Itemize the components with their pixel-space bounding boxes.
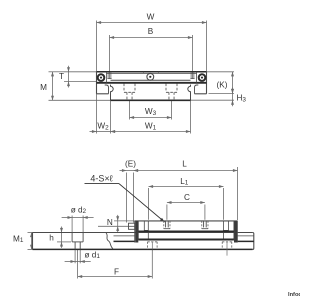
svg-text:B: B bbox=[148, 27, 154, 36]
svg-text:F: F bbox=[114, 267, 119, 276]
svg-text:4-S×ℓ: 4-S×ℓ bbox=[90, 173, 113, 183]
svg-text:(K): (K) bbox=[217, 80, 228, 89]
svg-text:L: L bbox=[182, 160, 187, 169]
svg-text:N: N bbox=[107, 218, 113, 227]
svg-text:M: M bbox=[40, 83, 47, 92]
svg-text:Infoq: Infoq bbox=[288, 292, 300, 298]
svg-text:h: h bbox=[49, 234, 54, 243]
svg-text:(E): (E) bbox=[125, 160, 136, 169]
svg-text:C: C bbox=[184, 193, 190, 202]
svg-text:T: T bbox=[59, 72, 64, 81]
svg-text:W: W bbox=[147, 13, 155, 22]
